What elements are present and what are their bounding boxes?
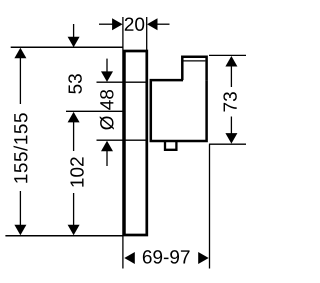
dim 73 lower dimension line [230,117,232,135]
cap / stop handle on body [182,57,206,80]
dim 102 bottom arrowhead [68,225,80,236]
dim 69-97 right extension line [209,144,211,268]
dim 20 left arrow tail [99,23,113,25]
dim 69-97 left arrowhead [124,252,135,264]
cap rim inner line [184,60,206,62]
valve body [151,80,207,141]
dim O48 top extension line [97,81,147,83]
dim 102 top arrowhead [68,112,80,123]
dim 73 label [223,92,236,111]
dim 73 bottom arrowhead [225,133,237,144]
dim 73 top extension line [209,54,246,56]
dim 73 upper dimension line [230,66,232,88]
dim 20 right arrow tail [157,23,170,25]
dim O48 upper arrow tail [106,59,108,73]
dim 69-97 label [143,250,190,263]
dim 102 label [70,157,83,186]
dim 73 top arrowhead [225,56,237,67]
dim 102 upper dimension line [73,122,75,152]
dim O48 lower arrowhead [101,141,113,152]
tick line between dims 53 and 102 [66,110,124,112]
dim O48 lower arrow tail [106,151,108,167]
dim 155/155 lower dimension line [19,191,21,226]
dim 20 label [125,17,144,30]
dim 73 bottom extension line [209,143,246,145]
dim 20 right arrowhead [147,18,158,30]
dim 155/155 label [14,113,28,182]
dim O48 bottom extension line [97,139,147,141]
dim 20 left arrowhead [112,18,123,30]
dim 53 upper arrow tail [73,24,75,39]
bottom reference line (bottom edge of plate level) [5,235,123,237]
dim 53 label [68,74,81,94]
dim 102 lower dimension line [73,193,75,226]
wall line (finished wall surface / extension line) [122,17,124,269]
dim 69-97 right arrowhead [198,252,209,264]
escutcheon plate (side view) [124,51,146,235]
dim 155/155 bottom arrowhead [14,225,26,236]
dim 53 upper arrowhead [68,37,80,48]
dim 20 right extension line [146,17,148,50]
dim O48 upper arrowhead [101,71,113,82]
dim 155/155 top arrowhead [14,48,26,59]
notch under body [165,141,176,150]
dim O48 label [100,90,114,130]
top reference line (top edge of plate level) [11,46,123,48]
dim 155/155 upper dimension line [19,57,21,104]
